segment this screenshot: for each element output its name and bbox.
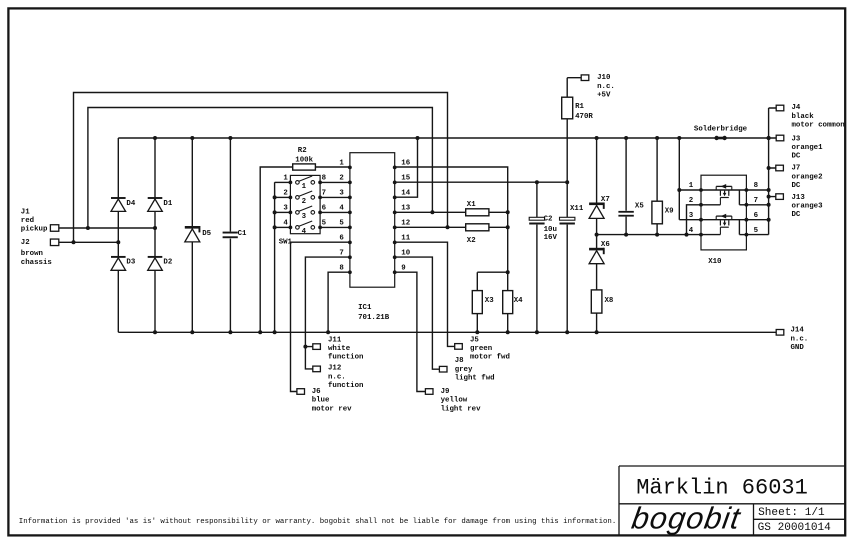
solderbridge xyxy=(717,137,725,140)
capacitor X5 xyxy=(625,138,627,235)
svg-text:black: black xyxy=(792,113,815,121)
wire diode column D1/D2 xyxy=(154,138,156,332)
svg-text:C1: C1 xyxy=(238,230,247,238)
svg-text:orange2: orange2 xyxy=(792,173,823,181)
svg-text:motor common: motor common xyxy=(792,122,845,130)
wire diode column D4/D3 xyxy=(117,138,119,332)
resistor R1 470R xyxy=(567,78,581,98)
svg-text:X1: X1 xyxy=(467,201,476,209)
svg-text:J2: J2 xyxy=(21,239,30,247)
svg-text:light rev: light rev xyxy=(441,405,481,413)
resistor X3 xyxy=(472,291,482,314)
connector J13 orange3 DC xyxy=(776,194,784,200)
svg-text:13: 13 xyxy=(401,205,410,213)
svg-text:1: 1 xyxy=(689,182,694,190)
svg-text:8: 8 xyxy=(754,182,759,190)
svg-text:Sheet: 1/1: Sheet: 1/1 xyxy=(758,507,825,519)
svg-text:white: white xyxy=(328,345,351,353)
svg-text:15: 15 xyxy=(401,175,410,183)
svg-text:5: 5 xyxy=(754,227,759,235)
svg-text:orange1: orange1 xyxy=(792,144,824,152)
svg-text:3: 3 xyxy=(302,213,307,221)
svg-text:green: green xyxy=(470,345,492,353)
wire motor-common main line (y=138) xyxy=(118,137,776,139)
zener diode X6 xyxy=(589,248,604,251)
svg-text:J3: J3 xyxy=(792,135,801,143)
svg-text:D1: D1 xyxy=(163,200,172,208)
svg-text:2: 2 xyxy=(283,190,287,198)
wire IC pin14 to main line xyxy=(395,138,418,197)
svg-text:5: 5 xyxy=(322,220,327,228)
svg-text:X9: X9 xyxy=(665,208,674,216)
svg-text:1: 1 xyxy=(339,160,344,168)
wire IC pin11 to J5 xyxy=(395,242,455,346)
wire mid junction line (y=234.6) xyxy=(597,234,701,236)
svg-text:red: red xyxy=(21,217,34,225)
svg-text:light fwd: light fwd xyxy=(455,375,495,383)
svg-text:+5V: +5V xyxy=(597,92,611,100)
svg-text:J1: J1 xyxy=(21,209,30,217)
svg-text:X6: X6 xyxy=(601,241,610,249)
connector J7 orange2 DC xyxy=(776,165,784,171)
svg-text:orange3: orange3 xyxy=(792,203,824,211)
svg-text:470R: 470R xyxy=(575,113,593,121)
wire X10 pin1/pin3 feed xyxy=(679,138,701,220)
svg-text:X10: X10 xyxy=(708,258,722,266)
svg-text:GND: GND xyxy=(791,344,805,352)
connector J1 red pickup xyxy=(50,225,58,232)
svg-text:100k: 100k xyxy=(295,157,313,165)
connector J12 n.c. function xyxy=(313,366,321,372)
wire IC pin8 to GND xyxy=(328,272,350,332)
wire X10 pin2 feed xyxy=(687,205,702,235)
svg-text:R2: R2 xyxy=(298,147,307,155)
connector J10 n.c. +5V xyxy=(581,75,589,81)
svg-text:J12: J12 xyxy=(328,365,341,373)
wire IC pin12 line to X2 xyxy=(395,226,508,228)
svg-text:C2: C2 xyxy=(544,215,553,223)
svg-text:10u: 10u xyxy=(544,226,557,234)
connector J9 yellow light rev xyxy=(425,389,433,395)
svg-text:J11: J11 xyxy=(328,336,342,344)
connector J5 green motor fwd xyxy=(455,344,463,350)
svg-text:8: 8 xyxy=(322,175,327,183)
connector J3 orange1 DC xyxy=(776,135,784,141)
wire X7/X6/X8 column xyxy=(596,138,598,332)
svg-text:5: 5 xyxy=(339,220,344,228)
resistor X2 xyxy=(466,224,489,231)
svg-text:D5: D5 xyxy=(202,230,211,238)
wire IC pin15 line xyxy=(395,181,568,183)
svg-text:X8: X8 xyxy=(605,297,614,305)
mosfet block X10 xyxy=(701,175,746,250)
svg-text:4: 4 xyxy=(339,205,344,213)
connector J2 brown chassis xyxy=(50,239,58,246)
svg-text:X4: X4 xyxy=(514,297,523,305)
svg-text:4: 4 xyxy=(689,227,694,235)
resistor X8 xyxy=(591,290,602,313)
svg-text:bogobit: bogobit xyxy=(629,501,743,536)
wire right output vertical xyxy=(769,108,777,235)
wire IC pin9 to J9 xyxy=(395,272,426,391)
svg-text:7: 7 xyxy=(754,197,758,205)
svg-text:grey: grey xyxy=(455,366,473,374)
wire net J2-chassis to IC pin12 (line-1) xyxy=(59,93,448,243)
svg-text:IC1: IC1 xyxy=(358,304,372,312)
svg-text:6: 6 xyxy=(754,212,759,220)
wire IC pin7 to J11/J12 xyxy=(305,257,350,369)
logo bogobit xyxy=(629,501,743,536)
svg-text:J9: J9 xyxy=(441,388,450,396)
svg-text:D2: D2 xyxy=(163,259,172,267)
svg-text:J4: J4 xyxy=(792,104,801,112)
wire IC pin10 to J8 xyxy=(395,257,440,369)
svg-text:4: 4 xyxy=(283,220,288,228)
svg-text:brown: brown xyxy=(21,250,43,258)
connector J8 grey light fwd xyxy=(439,366,447,372)
resistor R2 100k xyxy=(260,167,350,332)
svg-text:3: 3 xyxy=(283,205,288,213)
wire X3 tee xyxy=(477,272,507,332)
svg-text:J13: J13 xyxy=(792,194,806,202)
svg-text:16V: 16V xyxy=(544,234,558,242)
svg-text:1: 1 xyxy=(283,175,288,183)
wire IC pin13 line to X1 xyxy=(395,211,508,213)
svg-text:4: 4 xyxy=(302,228,307,236)
connector J6 blue motor rev xyxy=(297,389,305,395)
svg-text:11: 11 xyxy=(401,235,410,243)
resistor X1 xyxy=(466,209,489,216)
svg-text:J5: J5 xyxy=(470,336,479,344)
wire X10 right stubs xyxy=(746,189,768,191)
wire net J1-pickup to IC pin13 (line-2) xyxy=(59,108,433,229)
wire GND bus (y=332.3) xyxy=(118,331,776,333)
svg-text:R1: R1 xyxy=(575,103,584,111)
svg-text:2: 2 xyxy=(689,197,693,205)
wire IC pin6 to J6 xyxy=(291,242,350,391)
svg-text:chassis: chassis xyxy=(21,259,52,267)
svg-text:DC: DC xyxy=(792,211,801,219)
svg-text:D4: D4 xyxy=(126,200,135,208)
svg-text:Solderbridge: Solderbridge xyxy=(694,125,748,133)
svg-text:3: 3 xyxy=(689,212,694,220)
resistor X9 xyxy=(656,138,658,235)
svg-text:motor rev: motor rev xyxy=(312,405,352,413)
svg-text:6: 6 xyxy=(339,235,344,243)
svg-text:Märklin 66031: Märklin 66031 xyxy=(636,475,808,500)
svg-text:X5: X5 xyxy=(635,203,644,211)
capacitor C2 10u 16V xyxy=(536,182,538,332)
diode D2 xyxy=(148,256,163,258)
svg-text:2: 2 xyxy=(339,175,343,183)
wire D5 column xyxy=(191,138,193,332)
svg-text:7: 7 xyxy=(339,250,343,258)
svg-text:10: 10 xyxy=(401,250,410,258)
svg-text:X7: X7 xyxy=(601,196,610,204)
connector J11 white function xyxy=(313,344,321,350)
diode D3 xyxy=(111,256,126,258)
svg-text:701.21B: 701.21B xyxy=(358,314,390,322)
svg-text:blue: blue xyxy=(312,397,330,405)
svg-text:J6: J6 xyxy=(312,388,321,396)
svg-text:2: 2 xyxy=(302,198,306,206)
svg-text:8: 8 xyxy=(339,265,344,273)
svg-text:X2: X2 xyxy=(467,237,476,245)
svg-text:motor fwd: motor fwd xyxy=(470,354,510,362)
mosfet Q-upper in X10 xyxy=(716,185,732,187)
diode D4 xyxy=(111,197,126,199)
svg-text:n.c.: n.c. xyxy=(328,373,346,381)
mosfet Q-lower in X10 xyxy=(716,215,732,217)
svg-text:3: 3 xyxy=(339,190,344,198)
svg-text:14: 14 xyxy=(401,190,410,198)
svg-text:yellow: yellow xyxy=(441,397,468,405)
svg-text:function: function xyxy=(328,382,363,390)
capacitor C1 xyxy=(229,138,231,232)
svg-text:J10: J10 xyxy=(597,74,611,82)
svg-text:D3: D3 xyxy=(126,259,135,267)
svg-text:GS 20001014: GS 20001014 xyxy=(758,522,832,534)
svg-text:n.c.: n.c. xyxy=(597,83,615,91)
svg-text:12: 12 xyxy=(401,220,410,228)
svg-text:9: 9 xyxy=(401,265,405,273)
ic IC1 701.21B xyxy=(350,153,395,288)
svg-text:DC: DC xyxy=(792,182,801,190)
diode D1 xyxy=(148,197,163,199)
svg-text:J7: J7 xyxy=(792,165,801,173)
wire IC pin16 to X1/X2/X3/X4 column xyxy=(395,167,508,291)
svg-text:J8: J8 xyxy=(455,357,464,365)
svg-text:function: function xyxy=(328,354,363,362)
svg-text:X3: X3 xyxy=(485,297,494,305)
zener diode X7 xyxy=(589,203,604,206)
svg-text:n.c.: n.c. xyxy=(791,335,809,343)
zener diode D5 xyxy=(185,226,200,229)
svg-text:6: 6 xyxy=(322,205,327,213)
svg-text:Information is provided 'as is: Information is provided 'as is' without … xyxy=(19,518,616,526)
connector J4 black motor common xyxy=(776,105,784,111)
svg-text:X11: X11 xyxy=(570,205,584,213)
capacitor X11 xyxy=(566,119,568,332)
svg-text:DC: DC xyxy=(792,153,801,161)
svg-text:J14: J14 xyxy=(791,327,805,335)
svg-text:7: 7 xyxy=(322,190,326,198)
title block xyxy=(619,466,845,536)
svg-text:pickup: pickup xyxy=(21,226,48,234)
dip switch SW1 xyxy=(290,175,320,233)
svg-text:1: 1 xyxy=(302,183,307,191)
connector J14 n.c. GND xyxy=(776,330,784,336)
resistor X4 xyxy=(503,291,513,314)
